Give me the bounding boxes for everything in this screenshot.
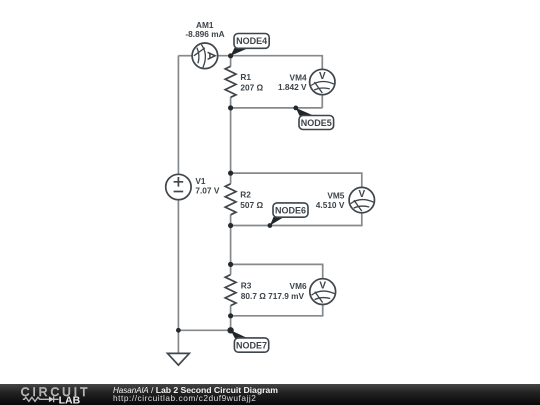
voltmeter VM6	[310, 279, 336, 305]
node dot node5 label tap	[293, 106, 298, 111]
svg-text:LAB: LAB	[59, 395, 81, 405]
wire VM4 bottom leg	[321, 95, 323, 108]
svg-text:NODE7: NODE7	[236, 340, 267, 350]
node dot node4	[228, 53, 233, 58]
resistor R3	[225, 275, 236, 306]
ground	[168, 353, 190, 365]
svg-text:V: V	[319, 71, 326, 82]
resistor R2	[225, 184, 236, 215]
svg-text:507 Ω: 507 Ω	[240, 200, 263, 210]
svg-text:4.510 V: 4.510 V	[316, 200, 345, 210]
node dot node5 left	[228, 105, 233, 110]
wire left column lower (V1 bottom to ground)	[177, 200, 179, 354]
svg-text:R1: R1	[240, 72, 251, 82]
voltmeter VM4	[310, 69, 335, 94]
svg-text:V: V	[319, 281, 326, 292]
footer bar	[0, 384, 540, 405]
node dot ground junction left	[176, 328, 181, 333]
footer line 2	[113, 393, 256, 403]
node label NODE7	[231, 330, 269, 352]
wire left column upper (to V1 top)	[177, 56, 179, 175]
ammeter AM1	[192, 43, 218, 69]
wire middle rail between R1 and R2	[230, 97, 232, 184]
wire middle rail R3 bottom lead	[230, 306, 232, 331]
wire VM6 loop bottom	[231, 305, 323, 316]
svg-text:V1: V1	[195, 176, 206, 186]
footer line 1	[113, 385, 278, 395]
svg-text:7.07 V: 7.07 V	[195, 186, 219, 196]
wire node5 rail	[231, 107, 323, 109]
node label NODE6	[270, 203, 308, 226]
node label NODE5	[296, 108, 334, 130]
svg-text:NODE4: NODE4	[236, 36, 267, 46]
node dot R2 bottom	[228, 223, 233, 228]
wire ammeter to node4 corner and right leg top	[218, 56, 323, 70]
wire ground rail	[178, 329, 230, 331]
wire middle rail between R2 and R3	[230, 215, 232, 275]
wire VM5 loop top	[231, 173, 362, 187]
svg-text:80.7 Ω: 80.7 Ω	[241, 291, 266, 301]
resistor R1	[225, 66, 236, 97]
svg-text:NODE6: NODE6	[275, 205, 306, 215]
wire top-left from left column to ammeter	[178, 55, 192, 57]
svg-text:-8.896 mA: -8.896 mA	[185, 29, 224, 39]
svg-text:717.9 mV: 717.9 mV	[268, 291, 304, 301]
wire VM5 loop bottom	[231, 213, 362, 226]
svg-text:VM4: VM4	[290, 73, 307, 83]
svg-text:NODE5: NODE5	[301, 118, 332, 128]
node dot R2 top	[228, 171, 233, 176]
node dot node7	[227, 327, 233, 333]
node label NODE4	[231, 34, 270, 56]
wire middle rail R1 top lead	[230, 56, 232, 67]
svg-text:R2: R2	[240, 190, 251, 200]
node dot R3 top	[228, 262, 233, 267]
voltage source V1	[166, 174, 191, 199]
svg-text:V: V	[358, 189, 365, 200]
CircuitLab logo	[0, 384, 110, 405]
svg-text:VM5: VM5	[327, 190, 344, 200]
svg-text:VM6: VM6	[290, 281, 307, 291]
svg-text:R3: R3	[241, 280, 252, 290]
svg-text:207 Ω: 207 Ω	[240, 83, 263, 93]
node dot node6 label tap	[268, 223, 273, 228]
node dot R3 bottom	[228, 313, 233, 318]
wire VM6 loop top	[231, 264, 323, 278]
svg-text:1.842 V: 1.842 V	[278, 82, 307, 92]
voltmeter VM5	[349, 187, 374, 212]
